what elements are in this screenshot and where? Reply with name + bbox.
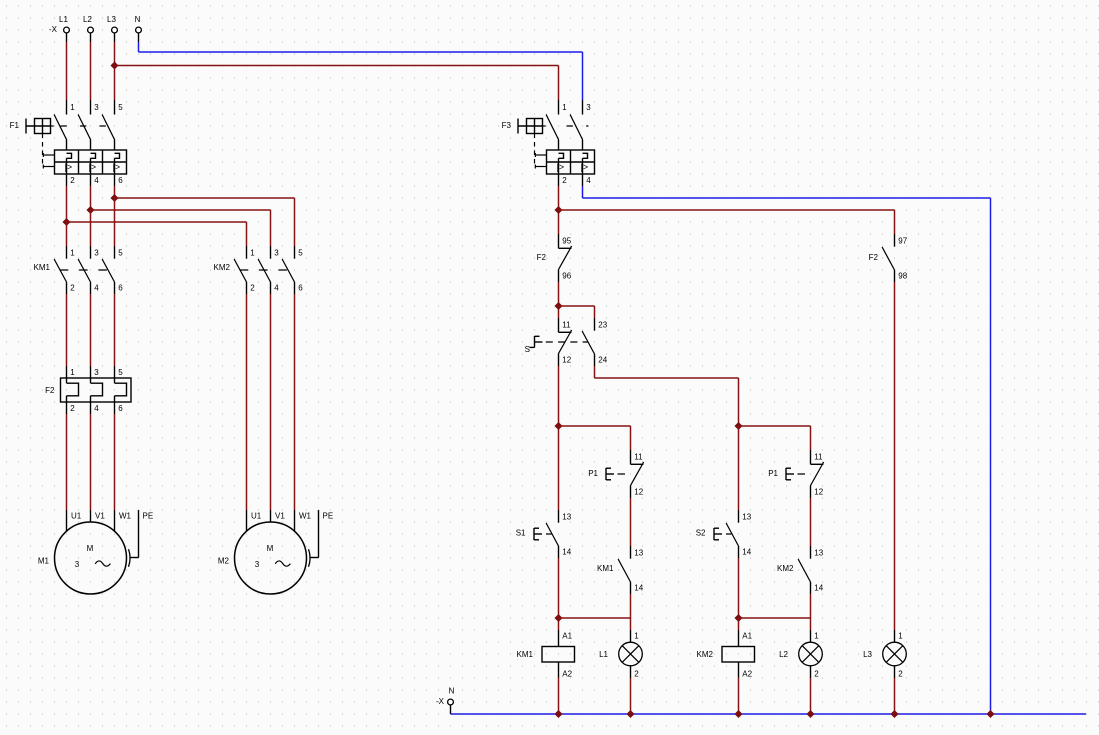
wire to S:23 bbox=[559, 306, 595, 318]
wire rung1 main to S1 bbox=[558, 426, 560, 510]
svg-text:1: 1 bbox=[250, 248, 255, 257]
wire to F2:97 bbox=[559, 210, 895, 234]
svg-text:N: N bbox=[449, 686, 455, 695]
svg-text:2: 2 bbox=[250, 283, 255, 292]
svg-text:11: 11 bbox=[814, 452, 823, 461]
contactor KM2 main contacts bbox=[214, 246, 304, 294]
svg-text:98: 98 bbox=[898, 271, 907, 280]
aux contact KM1 13-14 bbox=[597, 546, 644, 594]
svg-text:M2: M2 bbox=[218, 556, 230, 565]
node F1:4 / KM2 feed bbox=[87, 207, 94, 214]
svg-text:A1: A1 bbox=[742, 631, 752, 640]
circuit breaker F3 bbox=[502, 100, 595, 186]
svg-text:-X: -X bbox=[436, 697, 445, 706]
wire KM2 to motor M2 bbox=[247, 294, 295, 510]
wire to lamp L1 bbox=[630, 618, 632, 630]
switch S (NC 11-12 + NO 23-24) bbox=[525, 318, 608, 366]
svg-text:F1: F1 bbox=[10, 121, 20, 130]
svg-text:12: 12 bbox=[814, 487, 823, 496]
wire to KM2:3 bbox=[91, 210, 271, 246]
svg-text:F3: F3 bbox=[502, 121, 512, 130]
wire KM2:14 down to L2 bbox=[810, 594, 812, 618]
power terminals -X (L1 L2 L3 N) bbox=[49, 15, 141, 42]
overload relay F2 (main) bbox=[45, 366, 131, 414]
wire to coil KM2 bbox=[738, 618, 740, 630]
svg-text:96: 96 bbox=[562, 271, 571, 280]
wire rung1 branch top bbox=[559, 426, 631, 450]
svg-text:-X: -X bbox=[49, 25, 58, 34]
svg-text:5: 5 bbox=[298, 248, 303, 257]
wire S1:14 down bbox=[558, 558, 560, 618]
wire to lamp L2 bbox=[810, 618, 812, 630]
svg-text:L3: L3 bbox=[107, 15, 116, 24]
wire P1 to KM2 aux bbox=[810, 498, 812, 546]
wire S:12 down to rung 1 bbox=[558, 366, 560, 426]
node rung2 top bbox=[735, 423, 742, 430]
pushbutton P1 (rung2) NC 11-12 bbox=[768, 450, 824, 498]
wire L2 to F1:3 bbox=[90, 42, 92, 100]
svg-text:V1: V1 bbox=[275, 511, 285, 520]
svg-text:4: 4 bbox=[274, 283, 279, 292]
svg-text:5: 5 bbox=[118, 103, 123, 112]
wire rung2 branch top bbox=[739, 426, 811, 450]
pushbutton P1 (rung1) NC 11-12 bbox=[588, 450, 644, 498]
svg-text:2: 2 bbox=[70, 283, 75, 292]
svg-text:4: 4 bbox=[586, 176, 591, 185]
svg-text:M1: M1 bbox=[38, 556, 50, 565]
svg-text:|>: |> bbox=[65, 162, 73, 172]
svg-text:V1: V1 bbox=[95, 511, 105, 520]
svg-text:3: 3 bbox=[75, 560, 80, 569]
svg-text:KM2: KM2 bbox=[697, 650, 714, 659]
svg-text:P1: P1 bbox=[768, 469, 778, 478]
svg-text:A2: A2 bbox=[742, 669, 752, 678]
svg-text:|>: |> bbox=[581, 162, 589, 172]
svg-text:3: 3 bbox=[94, 103, 99, 112]
svg-text:97: 97 bbox=[898, 236, 907, 245]
node N bus / L1 bbox=[627, 711, 634, 718]
node rung1 bottom bbox=[555, 615, 562, 622]
svg-text:6: 6 bbox=[118, 176, 123, 185]
NO contact F2 97-98 bbox=[869, 234, 908, 282]
wire N to F3:3 bbox=[139, 42, 583, 100]
wire to KM2:5 bbox=[115, 198, 295, 246]
node F1:2 / KM2 feed bbox=[63, 219, 70, 226]
svg-text:KM1: KM1 bbox=[597, 564, 614, 573]
svg-text:L2: L2 bbox=[83, 15, 92, 24]
svg-text:3: 3 bbox=[94, 368, 99, 377]
wire N bus (bottom) bbox=[451, 713, 1087, 715]
lamp L1 bbox=[599, 630, 642, 678]
wire lamp L3 to N bbox=[894, 678, 896, 714]
coil KM1 bbox=[517, 630, 575, 678]
lamp L2 bbox=[779, 630, 822, 678]
svg-text:U1: U1 bbox=[251, 511, 262, 520]
motor M2 bbox=[218, 510, 333, 594]
wire L3 to F1:5 bbox=[114, 42, 116, 100]
wire F3:2 down bbox=[558, 186, 560, 234]
contactor KM1 main contacts bbox=[34, 246, 124, 294]
svg-text:3: 3 bbox=[586, 103, 591, 112]
svg-text:14: 14 bbox=[562, 547, 571, 556]
svg-text:1: 1 bbox=[898, 631, 903, 640]
coil KM2 bbox=[697, 630, 755, 678]
svg-text:KM1: KM1 bbox=[34, 263, 51, 272]
svg-text:M: M bbox=[87, 544, 94, 553]
wire F1:2 down bbox=[66, 186, 68, 222]
pushbutton S2 NO 13-14 bbox=[696, 510, 752, 558]
svg-text:|>: |> bbox=[113, 162, 121, 172]
svg-text:|>: |> bbox=[557, 162, 565, 172]
wire S2:14 down bbox=[738, 558, 740, 618]
svg-text:12: 12 bbox=[562, 355, 571, 364]
svg-text:1: 1 bbox=[634, 631, 639, 640]
svg-text:F2: F2 bbox=[45, 386, 55, 395]
svg-text:KM2: KM2 bbox=[777, 564, 794, 573]
wire to coil KM1 bbox=[558, 618, 560, 630]
svg-text:L1: L1 bbox=[59, 15, 68, 24]
svg-text:11: 11 bbox=[634, 452, 643, 461]
wire F2 to motor M1 bbox=[67, 414, 115, 510]
svg-text:1: 1 bbox=[70, 103, 75, 112]
svg-text:S: S bbox=[525, 345, 530, 354]
svg-text:S1: S1 bbox=[516, 528, 526, 537]
lamp L3 bbox=[863, 630, 906, 678]
svg-text:1: 1 bbox=[562, 103, 567, 112]
wire F3:4 (blue N down right side) bbox=[583, 186, 991, 714]
svg-text:2: 2 bbox=[898, 669, 903, 678]
svg-text:M: M bbox=[267, 544, 274, 553]
svg-text:|>: |> bbox=[89, 162, 97, 172]
node N bus / KM1 coil bbox=[555, 711, 562, 718]
wire to KM2:1 bbox=[67, 222, 247, 246]
svg-text:1: 1 bbox=[814, 631, 819, 640]
svg-text:W1: W1 bbox=[299, 511, 312, 520]
svg-text:3: 3 bbox=[274, 248, 279, 257]
circuit breaker F1 bbox=[10, 100, 127, 186]
wire rung1 bottom join bbox=[559, 617, 631, 619]
svg-text:L2: L2 bbox=[779, 650, 788, 659]
svg-text:1: 1 bbox=[70, 248, 75, 257]
aux contact KM2 13-14 bbox=[777, 546, 824, 594]
node L3 branch to F3 bbox=[111, 62, 118, 69]
svg-text:S2: S2 bbox=[696, 528, 706, 537]
wire lamp L2 to N bbox=[810, 678, 812, 714]
wire coil KM2 to N bbox=[738, 678, 740, 715]
svg-text:12: 12 bbox=[634, 487, 643, 496]
node F3:2 / F2 97 feed bbox=[555, 207, 562, 214]
svg-text:2: 2 bbox=[634, 669, 639, 678]
wire F1:4 down bbox=[90, 186, 92, 210]
wire KM1:14 down to L1 bbox=[630, 594, 632, 618]
svg-text:6: 6 bbox=[118, 283, 123, 292]
svg-text:13: 13 bbox=[742, 512, 751, 521]
wire lamp L1 to N bbox=[630, 678, 632, 714]
svg-text:24: 24 bbox=[598, 355, 607, 364]
svg-text:PE: PE bbox=[143, 511, 154, 520]
node N bus / KM2 coil bbox=[735, 711, 742, 718]
svg-text:U1: U1 bbox=[71, 511, 82, 520]
svg-text:14: 14 bbox=[814, 583, 823, 592]
svg-text:5: 5 bbox=[118, 248, 123, 257]
svg-text:4: 4 bbox=[94, 404, 99, 413]
svg-text:13: 13 bbox=[814, 548, 823, 557]
svg-text:4: 4 bbox=[94, 283, 99, 292]
NC contact F2 95-96 bbox=[537, 234, 572, 282]
wire P1 to KM1 aux bbox=[630, 498, 632, 546]
svg-text:14: 14 bbox=[742, 547, 751, 556]
svg-text:L1: L1 bbox=[599, 650, 608, 659]
node S branch bbox=[555, 303, 562, 310]
svg-text:PE: PE bbox=[323, 511, 334, 520]
svg-text:F2: F2 bbox=[537, 253, 547, 262]
svg-text:1: 1 bbox=[70, 368, 75, 377]
node N bus / blue riser bbox=[987, 711, 994, 718]
wire KM1 to F2 overload bbox=[67, 294, 115, 366]
terminal -X N (bottom) bbox=[436, 686, 455, 714]
svg-text:2: 2 bbox=[562, 176, 567, 185]
svg-text:3: 3 bbox=[255, 560, 260, 569]
svg-text:F2: F2 bbox=[869, 253, 879, 262]
wire L3 to F3:1 bbox=[115, 66, 559, 101]
svg-text:5: 5 bbox=[118, 368, 123, 377]
svg-text:2: 2 bbox=[70, 404, 75, 413]
pushbutton S1 NO 13-14 bbox=[516, 510, 572, 558]
svg-text:A1: A1 bbox=[562, 631, 572, 640]
svg-text:13: 13 bbox=[634, 548, 643, 557]
svg-text:3: 3 bbox=[94, 248, 99, 257]
svg-text:14: 14 bbox=[634, 583, 643, 592]
svg-text:KM1: KM1 bbox=[517, 650, 534, 659]
svg-text:6: 6 bbox=[118, 404, 123, 413]
wire S:24 to rung 2 bbox=[595, 366, 739, 426]
svg-text:N: N bbox=[135, 15, 141, 24]
motor M1 bbox=[38, 510, 153, 594]
node rung2 bottom bbox=[735, 615, 742, 622]
svg-text:23: 23 bbox=[598, 320, 607, 329]
wire F1:6 down bbox=[114, 186, 116, 198]
wire F1 to KM1 poles bbox=[67, 198, 115, 246]
node F1:6 / KM2 feed bbox=[111, 195, 118, 202]
svg-text:4: 4 bbox=[94, 176, 99, 185]
svg-text:P1: P1 bbox=[588, 469, 598, 478]
svg-text:13: 13 bbox=[562, 512, 571, 521]
node N bus / L3 bbox=[891, 711, 898, 718]
node N bus / L2 bbox=[807, 711, 814, 718]
wire rung2 main to S2 bbox=[738, 426, 740, 510]
wire F2:96 down bbox=[558, 282, 560, 318]
svg-text:2: 2 bbox=[70, 176, 75, 185]
svg-text:2: 2 bbox=[814, 669, 819, 678]
svg-text:6: 6 bbox=[298, 283, 303, 292]
svg-text:W1: W1 bbox=[119, 511, 132, 520]
wire coil KM1 to N bbox=[558, 678, 560, 715]
svg-text:95: 95 bbox=[562, 236, 571, 245]
wire rung2 bottom join bbox=[739, 617, 811, 619]
svg-text:11: 11 bbox=[562, 320, 571, 329]
svg-text:A2: A2 bbox=[562, 669, 572, 678]
svg-text:L3: L3 bbox=[863, 650, 872, 659]
node rung1 top bbox=[555, 423, 562, 430]
wire L1 to F1:1 bbox=[66, 42, 68, 100]
svg-text:KM2: KM2 bbox=[214, 263, 231, 272]
wire F2:98 to lamp L3 bbox=[894, 282, 896, 630]
